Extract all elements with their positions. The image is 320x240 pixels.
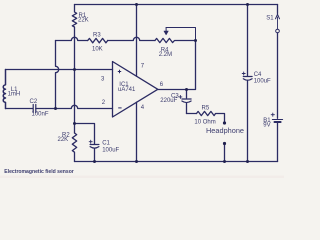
wire vertical from feedback corner, hop over pin3 wire, to C2 node	[56, 41, 59, 109]
node C4/ground	[246, 160, 249, 163]
wire top supply rail	[75, 4, 278, 6]
wire C1 tap to R2	[74, 124, 76, 134]
svg-text:22K: 22K	[58, 137, 69, 143]
op-amp polarity marks	[118, 70, 122, 108]
svg-text:C4: C4	[254, 72, 262, 78]
inductor L1	[3, 70, 5, 109]
wire right rail middle	[277, 33, 279, 119]
svg-text:Electromagnetic field sensor: Electromagnetic field sensor	[4, 169, 74, 175]
capacitor C1	[75, 124, 99, 162]
node C2 junction	[54, 107, 57, 110]
svg-text:22K: 22K	[78, 18, 89, 24]
svg-text:C1: C1	[102, 141, 110, 147]
wire bottom ground rail	[75, 161, 278, 163]
wire node A to C1 tap	[74, 70, 76, 124]
wire output pin 6	[158, 89, 187, 91]
svg-text:R5: R5	[202, 105, 210, 111]
wire pin 3 input run	[6, 69, 113, 71]
headphone lower lead	[224, 144, 226, 162]
wire R3 to R4 with hop over pin7 line	[108, 37, 155, 40]
op-amp IC1 triangle	[113, 62, 158, 118]
node R4 right	[194, 39, 197, 42]
svg-text:100uF: 100uF	[254, 79, 271, 85]
svg-text:100uF: 100uF	[102, 148, 119, 154]
svg-text:C2: C2	[30, 99, 38, 105]
wire C3 to R5	[187, 113, 197, 115]
capacitor C3	[179, 90, 191, 114]
wire C2 to pin 2 with hop over divider	[36, 105, 113, 108]
wire L1 bottom corner to C2	[6, 108, 33, 110]
svg-text:S1: S1	[266, 16, 274, 22]
svg-text:10 Ohm: 10 Ohm	[194, 119, 215, 125]
headphone terminal bottom	[223, 142, 226, 145]
node C4/top rail	[246, 3, 249, 6]
node pin7/top rail	[135, 3, 138, 6]
svg-text:9V: 9V	[263, 123, 270, 129]
wire R4 node down to output	[187, 41, 196, 90]
wire divider vertical R1 to node A	[74, 36, 76, 70]
node pin4/ground	[135, 160, 138, 163]
svg-text:100nF: 100nF	[32, 112, 49, 118]
capacitor C4	[242, 5, 252, 162]
wire pin 7 vertical	[136, 5, 138, 77]
battery B1	[271, 113, 282, 122]
svg-text:1mH: 1mH	[8, 92, 21, 98]
resistor R1	[72, 5, 76, 37]
wire right rail upper stub	[277, 5, 279, 14]
resistor R4	[155, 38, 196, 42]
node A pin3	[73, 68, 76, 71]
R4 wiper arrow	[164, 28, 196, 41]
svg-text:2.2M: 2.2M	[159, 52, 172, 58]
svg-text:uA741: uA741	[118, 87, 136, 93]
svg-text:Headphone: Headphone	[206, 128, 244, 135]
svg-text:220uF: 220uF	[160, 98, 177, 104]
wire feedback run: corner, hop over divider, to R3	[56, 37, 88, 40]
resistor R2	[72, 133, 76, 162]
headphone terminal top	[223, 121, 226, 124]
node C1 tap	[73, 122, 76, 125]
node headphone/ground	[223, 160, 226, 163]
wire pin 4 vertical	[136, 102, 138, 161]
node C1/ground	[93, 160, 96, 163]
svg-text:10K: 10K	[92, 47, 103, 53]
resistor R3	[88, 38, 108, 42]
switch S1	[276, 14, 280, 33]
wire right rail lower	[277, 123, 279, 161]
svg-text:R3: R3	[93, 32, 101, 38]
node output	[185, 88, 188, 91]
capacitor C2	[33, 105, 36, 113]
resistor R5	[197, 111, 225, 123]
